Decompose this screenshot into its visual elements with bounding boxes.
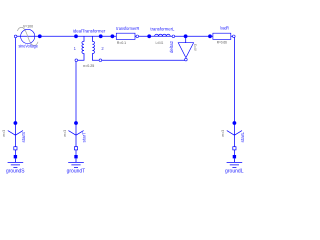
- starS: plug_p filled circle: [14, 121, 18, 125]
- delta2: plug_n open circle: [185, 58, 188, 61]
- svg-text:groundL: groundL: [225, 169, 244, 175]
- starS: pin_n open square: [14, 147, 17, 150]
- svg-text:groundT: groundT: [67, 169, 86, 175]
- idealTransformer: plug_p1 filled circle: [74, 34, 78, 38]
- svg-text:groundS: groundS: [6, 169, 25, 175]
- idealTransformer: plug_p2 filled circle: [99, 34, 103, 38]
- svg-text:m=3: m=3: [63, 130, 67, 137]
- svg-text:starL: starL: [240, 131, 245, 142]
- starT: star Y icon: [68, 123, 83, 147]
- svg-text:m=3: m=3: [194, 44, 198, 51]
- wire from loadR pin_n down to starL: [233, 36, 236, 123]
- sineVoltage: gray sine curve: [17, 27, 38, 45]
- svg-text:loadR: loadR: [220, 26, 229, 31]
- transformerL: inductor coil humps: [155, 34, 171, 36]
- starT: plug_p filled circle: [74, 121, 78, 125]
- transformerL: plug_n open circle: [172, 35, 175, 38]
- svg-text:m=3: m=3: [2, 130, 6, 137]
- delta2: triangle: [178, 43, 193, 58]
- svg-text:L=0.01: L=0.01: [156, 41, 164, 45]
- starL: plug_p filled circle: [233, 121, 237, 125]
- wire starL pin to groundL: [233, 150, 235, 155]
- delta2: stub from rail to triangle: [185, 36, 187, 42]
- loadR: plug_n open circle: [233, 35, 236, 38]
- starS: star Y icon: [8, 123, 23, 147]
- idealTransformer: plug_n1 open circle: [75, 59, 78, 62]
- transformerR: plug_n open circle: [136, 35, 139, 38]
- svg-text:transformerL: transformerL: [150, 26, 174, 31]
- wire starS pin to groundS: [14, 150, 16, 155]
- idealTransformer: secondary winding coil: [92, 36, 99, 60]
- svg-text:V=100: V=100: [23, 25, 33, 29]
- transformerL: plug_p filled circle: [147, 34, 151, 38]
- svg-text:delta2: delta2: [169, 40, 174, 53]
- svg-text:R=0.1: R=0.1: [117, 41, 126, 45]
- groundT: ground symbol: [68, 158, 84, 167]
- svg-text:idealTransformer: idealTransformer: [73, 29, 106, 34]
- wire from idealTransformer primary pin_n down to starT: [75, 60, 77, 123]
- svg-text:starT: starT: [82, 131, 87, 142]
- starL: pin_n open square: [233, 147, 236, 150]
- groundT: pin filled square: [74, 155, 77, 158]
- delta2: plug_p filled circle on rail: [184, 34, 188, 38]
- transformerR: resistor box: [116, 33, 135, 39]
- transformerR: plug_p filled circle: [111, 34, 115, 38]
- groundL: pin filled square: [233, 155, 236, 158]
- svg-text:starS: starS: [21, 132, 26, 143]
- sineVoltage: plug_p filled circle: [38, 34, 42, 38]
- idealTransformer: plug_n2 open circle: [99, 59, 102, 62]
- starL: star Y icon: [227, 123, 242, 147]
- wire from sineVoltage pin_n down to starS: [14, 36, 16, 123]
- svg-text:n=0.25: n=0.25: [83, 64, 94, 68]
- wire starT pin to groundT: [75, 150, 77, 155]
- svg-text:2: 2: [101, 46, 104, 51]
- svg-text:R=0.66: R=0.66: [217, 40, 227, 44]
- svg-text:1: 1: [74, 46, 77, 51]
- groundL: ground symbol: [227, 158, 243, 167]
- sineVoltage: circle body: [21, 29, 35, 43]
- groundS: ground symbol: [8, 158, 24, 167]
- svg-text:sineVoltage: sineVoltage: [18, 44, 38, 49]
- idealTransformer: primary winding coil: [78, 36, 84, 60]
- wire: main top rail from sineVoltage to loadR: [16, 35, 234, 37]
- starT: pin_n open square: [74, 147, 77, 150]
- groundS: pin filled square: [14, 155, 17, 158]
- loadR: plug_p filled circle: [208, 34, 212, 38]
- svg-text:m=3: m=3: [221, 130, 225, 137]
- sineVoltage: plug_n open circle: [14, 35, 17, 38]
- wire secondary bottom rail: transformer pin to delta2 pin_n: [100, 59, 185, 61]
- svg-text:transformerR: transformerR: [116, 26, 140, 31]
- loadR: resistor box: [213, 33, 231, 39]
